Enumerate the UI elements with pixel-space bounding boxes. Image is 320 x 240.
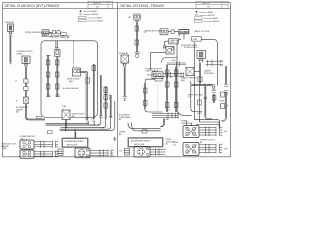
svg-text:accessoire AVANT: accessoire AVANT [204,17,220,20]
wire [56,31,58,33]
wire from box left and down [145,79,155,83]
interrupteur body [22,56,30,64]
alimentation note box [62,138,88,148]
svg-text:PRISE: PRISE [17,53,24,55]
harness 1 connector [41,141,45,148]
vertical from switch [199,63,201,84]
ladder far right [213,94,215,103]
alimentation note box right [128,138,163,148]
big rounded loom right panel [177,39,192,115]
svg-text:connexion AVANT: connexion AVANT [83,10,98,13]
wires crossing loom edge [167,63,186,65]
bottom-right bus [194,120,219,128]
junction dots [194,84,195,85]
svg-text:accessoire RAPIDE: accessoire RAPIDE [88,20,105,23]
wire from X-box down [65,120,67,132]
far right connector 2 [221,104,225,109]
prise comp [121,55,129,63]
svg-text:DETAIL 43T13043 - FRANCE: DETAIL 43T13043 - FRANCE [121,4,166,8]
junction dots [88,123,89,124]
svg-text:ALIMENTATION APV: ALIMENTATION APV [131,140,151,143]
connector plate R1 [183,126,199,138]
ladder C connector 2 [143,101,147,106]
drop from loom edge [55,41,57,48]
svg-text:PRISE AV: PRISE AV [5,21,15,24]
harness 1 wires 2 [44,142,53,147]
ladder A right panel [166,65,168,112]
washer feed wire [73,41,75,68]
bus tick label [48,131,53,134]
wire pump to right then down [81,72,88,120]
wire pair far right [225,66,227,84]
wire left horizontal [151,52,167,54]
right legend [195,11,221,23]
DIN connector [75,148,90,158]
fuse stack right [125,149,130,151]
end accessory box [57,31,60,34]
wire radio to loom [183,34,185,39]
ladder C bend to cluster [145,109,163,113]
connector X box on loom bottom [62,110,70,120]
connector [123,64,127,68]
svg-text:(AV): (AV) [181,79,185,82]
inline connector 1 [24,79,28,83]
accessory label box PLA [169,39,179,44]
svg-text:SPECIALE: SPECIALE [204,72,215,75]
harness 2 connector 2 [53,151,56,157]
harness 2 wires 2 [44,152,53,156]
connector below [199,59,204,63]
ladder top wire [135,22,137,52]
terminal sym [114,137,117,141]
DIN connector right [134,147,150,158]
connector bars [208,60,213,67]
connector [168,72,171,78]
svg-text:5 AV: 5 AV [193,38,198,41]
faint vertical [157,85,159,111]
prise de courant AV body [8,24,14,32]
svg-text:HYDROPHILE: HYDROPHILE [184,47,198,49]
wires right [163,73,168,76]
title bar bottom line [3,8,231,10]
wire run right [99,75,101,116]
DIN right harness [150,150,156,155]
ladder top connector block [134,14,140,20]
wire [49,31,53,33]
ladder connector 1 [135,26,139,31]
loom corner right-mid [162,58,178,63]
wire down [123,67,125,96]
ladder connector c [104,103,108,108]
wire from pla to comp [164,41,168,45]
mid comp lampe [186,68,194,76]
wire down left [150,53,152,70]
terminals outside [218,60,221,66]
inline connector 2 [24,87,28,91]
bottom-left right panel bus [128,123,161,129]
connector plate 1 [20,140,34,149]
svg-text:accessoire RAPIDE: accessoire RAPIDE [204,20,221,23]
svg-text:5 AV: 5 AV [172,59,177,62]
ladder connector a [104,88,108,93]
small accessory box [155,76,162,81]
wire prise AV down [9,35,11,61]
ladder 1 in loom [47,55,49,97]
svg-text:LA200/17: LA200/17 [93,2,101,5]
svg-text:APPLIQUE: APPLIQUE [67,143,78,146]
page outer border [3,3,231,157]
ladder C connector 1 [143,88,147,93]
DIN harness wires [90,151,100,156]
connector plate R2 [183,143,199,156]
interrupteur lave body [152,72,163,79]
svg-text:A LAVE GLACE AV: A LAVE GLACE AV [63,87,79,90]
svg-text:connexion RAPIDE: connexion RAPIDE [199,14,215,17]
junction component [24,97,29,104]
horizontal wire to right [29,119,45,121]
loom label box [42,33,52,37]
harness 1 wires [34,142,41,147]
svg-text:NIER: NIER [170,42,175,44]
wire [24,83,26,87]
panel divider [117,3,119,157]
svg-text:LA200/17: LA200/17 [202,2,210,5]
inline connector [53,31,56,34]
wire curving down [174,32,179,37]
bus drops [193,42,195,120]
svg-text:accessoire AVANT: accessoire AVANT [88,16,104,19]
harness 1 terminals [56,141,59,148]
ladder right low [104,86,106,119]
wires into plate R1 [186,121,188,126]
harness R2 [199,145,206,153]
wire near divider [109,95,111,118]
ladder connector b [104,95,108,100]
svg-text:ALIMENTATION APV: ALIMENTATION APV [65,140,85,143]
terminal [123,97,127,99]
DIN terminals [111,150,114,157]
wire interrupteur down [24,67,26,79]
svg-text:RADIO: RADIO [180,31,188,34]
bus right panel [191,81,215,90]
wire down then bend right [24,104,26,117]
wire from comp [194,71,200,73]
bottom bus wires left panel [46,121,89,124]
wire [24,91,26,98]
fuse stack [58,149,63,151]
far right connector 1 [221,92,225,97]
inline box [171,30,174,33]
dashboard loom rounded outline [41,41,62,118]
left legend [79,10,105,22]
svg-text:A PRISES RADIO AV: A PRISES RADIO AV [53,34,71,37]
prise AV connector [9,32,12,35]
left header table [88,1,113,8]
harness 2 terminals [56,151,59,157]
lave glace pump [73,68,81,76]
small terminal right mid [166,118,169,120]
bottom cluster of ladders [152,114,179,118]
prise interieure connector block [42,30,49,36]
wires right crossing edge [206,61,218,65]
connector plate 2 [20,150,34,158]
svg-text:connexion RAPIDE: connexion RAPIDE [83,13,99,16]
svg-text:APPLIQUE: APPLIQUE [134,143,145,146]
bus tick label right [142,130,147,133]
wire [168,31,171,33]
end ticks [86,119,89,121]
svg-text:(AV): (AV) [3,147,7,150]
harness 2 connector [41,151,45,157]
svg-text:DETAIL CLUB 40CV (BVT)-FRANCE: DETAIL CLUB 40CV (BVT)-FRANCE [5,4,61,8]
terminal end [9,62,12,65]
svg-text:connexion AVANT: connexion AVANT [199,11,214,14]
interrupteur connector [24,64,28,67]
harness R1 [199,128,206,136]
radio dark box [179,30,189,34]
plafonnier comp [166,46,174,54]
DIN harness connector [100,150,104,157]
edge connector [177,62,180,67]
inline connector on pump wire [86,78,90,83]
ladder C wire [144,83,146,109]
connector left of comp [163,46,166,49]
autoradio connector block [160,29,168,35]
inline connector [92,66,96,71]
cluster drop to bus [160,119,164,127]
harness 1 connector 2 [53,141,56,148]
ladder B right panel [175,67,177,113]
right header table [196,1,228,8]
ladder end symbol [135,52,140,54]
wire run mid [92,64,94,119]
svg-text:(AV): (AV) [69,80,73,83]
harness 2 wires [34,152,41,156]
interrupteur hydrophile body [197,51,206,59]
loom label box right [192,37,202,42]
svg-text:1 RG: 1 RG [166,109,171,111]
svg-text:PRISE: PRISE [220,101,226,103]
svg-text:(SAUF OPTION): (SAUF OPTION) [194,30,210,33]
ladder connector 2 [135,40,139,45]
accessory comp on drop [55,49,60,56]
ladder 2 in loom [56,57,58,98]
accessory label box [61,33,67,36]
svg-text:PRISE AV: PRISE AV [119,52,129,55]
wire bus to note box [74,129,76,139]
